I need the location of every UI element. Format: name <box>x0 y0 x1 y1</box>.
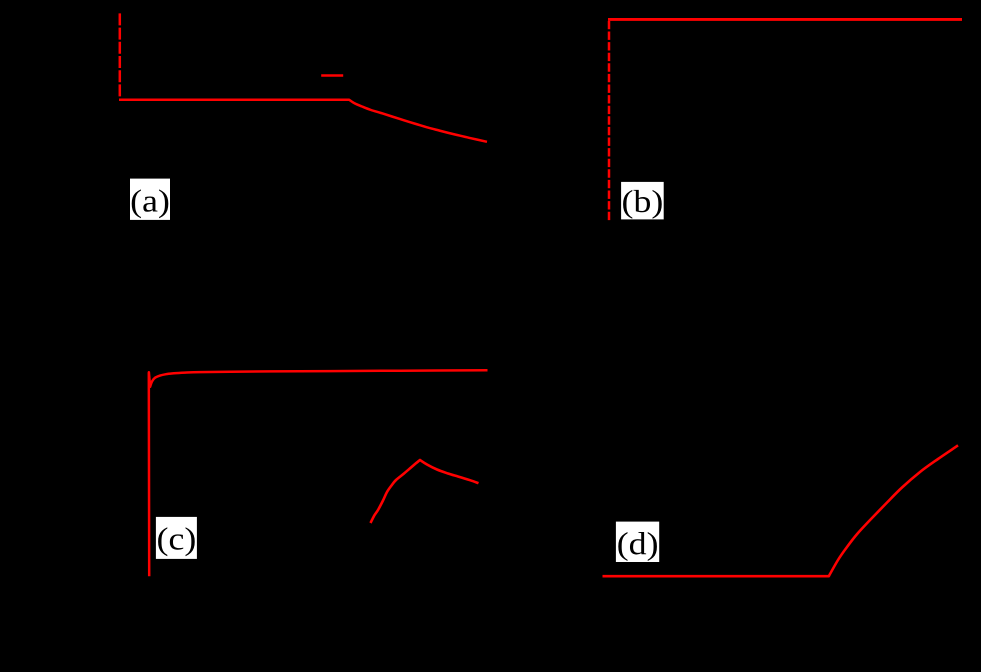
label (b) text <box>623 190 662 219</box>
label (a) white box <box>130 179 170 220</box>
label (a) text <box>132 189 169 218</box>
subplot (c) main curve with spike and plateau <box>149 370 488 576</box>
subplot (b) dashed vertical line <box>608 21 611 222</box>
subplot (d) curve flat then rising <box>603 445 959 576</box>
subplot (c) second curve with peak <box>371 460 479 523</box>
label (b) white box <box>621 182 664 220</box>
subplot (a) main curve <box>119 100 487 142</box>
subplot (b) horizontal curve <box>608 18 962 21</box>
label (c) text <box>158 527 195 556</box>
subplot (a) legend sample line <box>321 74 343 76</box>
label (c) white box <box>156 517 197 559</box>
subplot (a) dashed vertical line <box>119 13 122 97</box>
label (d) text <box>618 532 657 561</box>
label (d) white box <box>616 522 659 562</box>
